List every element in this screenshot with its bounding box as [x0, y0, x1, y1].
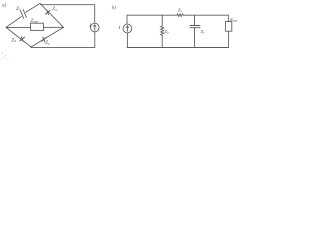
capacitor branch: top wire — [194, 15, 196, 25]
svg-text:I: I — [88, 24, 91, 29]
wire: diamond bottom-left edge — [6, 27, 31, 47]
svg-text:Zkap: Zkap — [31, 19, 39, 24]
current source I (circuit a) — [91, 23, 100, 32]
svg-text:a): a) — [2, 4, 7, 9]
shunt resistor branch: top wire — [161, 15, 163, 26]
faint scan specks bottom-left — [1, 53, 8, 60]
wire: right edge bottom — [228, 31, 230, 47]
capacitor Zk bar 1 — [190, 25, 200, 27]
impedance box Z_kep (bridge element) — [31, 23, 44, 30]
crossed element X bottom-right — [42, 37, 47, 42]
svg-text:I: I — [118, 26, 121, 31]
wire: source bottom to bottom rail — [31, 32, 95, 48]
wire: bottom rail b — [127, 47, 229, 49]
capacitor Zk bar 2 — [190, 27, 200, 29]
wire: diamond bottom-right edge — [31, 27, 64, 47]
svg-text:Zd: Zd — [12, 38, 17, 43]
svg-text:Zc: Zc — [201, 29, 206, 35]
wire: diamond top-right edge — [40, 3, 64, 27]
crossed element X bottom-left — [20, 37, 25, 42]
wire: shunt resistor bottom — [161, 35, 163, 47]
current source I (circuit b) — [123, 24, 132, 33]
wire: bridge horizontal — [6, 26, 64, 28]
crossed element X top-right — [45, 10, 50, 15]
wire: diamond top-left edge lower part — [6, 17, 21, 28]
impedance box Z_kap (right edge) — [225, 22, 231, 32]
capacitor Z_C bar 2 — [23, 10, 26, 18]
svg-text:Zkap: Zkap — [230, 17, 238, 23]
svg-text:Zm: Zm — [52, 7, 58, 12]
svg-text:Zb: Zb — [45, 41, 50, 46]
svg-text:ZC: ZC — [16, 7, 22, 12]
capacitor Z_C bar 1 — [20, 10, 23, 18]
wire: capacitor bottom — [194, 28, 196, 48]
wire: diamond top-left edge upper part — [26, 3, 40, 12]
shunt resistor Zb (zigzag) — [161, 26, 164, 35]
wire: top rail b (left of series resistor) — [127, 15, 177, 24]
wire: right edge top — [228, 15, 230, 21]
wire: top rail to source — [40, 5, 94, 24]
svg-text:Za: Za — [178, 7, 183, 13]
arrow inside source a — [94, 25, 96, 30]
svg-text:b): b) — [112, 6, 117, 11]
series resistor Za (zigzag) — [177, 14, 183, 17]
wire: source b bottom — [126, 33, 128, 48]
wire: top rail b (right of series resistor) — [183, 14, 228, 16]
svg-text:Zb: Zb — [164, 29, 169, 35]
arrow inside source b — [126, 26, 128, 31]
